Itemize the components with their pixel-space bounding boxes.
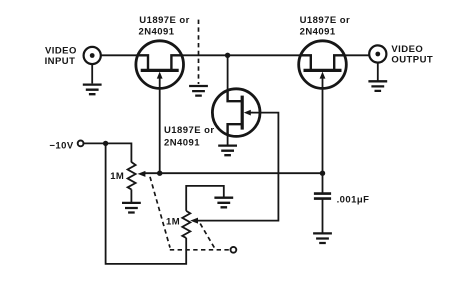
svg-text:VIDEO: VIDEO — [391, 44, 423, 55]
svg-text:U1897E or: U1897E or — [139, 15, 190, 26]
svg-text:OUTPUT: OUTPUT — [391, 55, 433, 66]
svg-text:−10V: −10V — [49, 141, 73, 152]
svg-text:2N4091: 2N4091 — [139, 26, 175, 37]
svg-text:1M: 1M — [166, 216, 180, 227]
svg-text:INPUT: INPUT — [45, 56, 76, 67]
svg-text:U1897E or: U1897E or — [164, 125, 215, 136]
svg-text:2N4091: 2N4091 — [300, 26, 336, 37]
svg-text:.001μF: .001μF — [337, 194, 370, 205]
svg-text:U1897E or: U1897E or — [300, 15, 351, 26]
svg-text:1M: 1M — [110, 171, 124, 182]
svg-text:2N4091: 2N4091 — [164, 138, 200, 149]
